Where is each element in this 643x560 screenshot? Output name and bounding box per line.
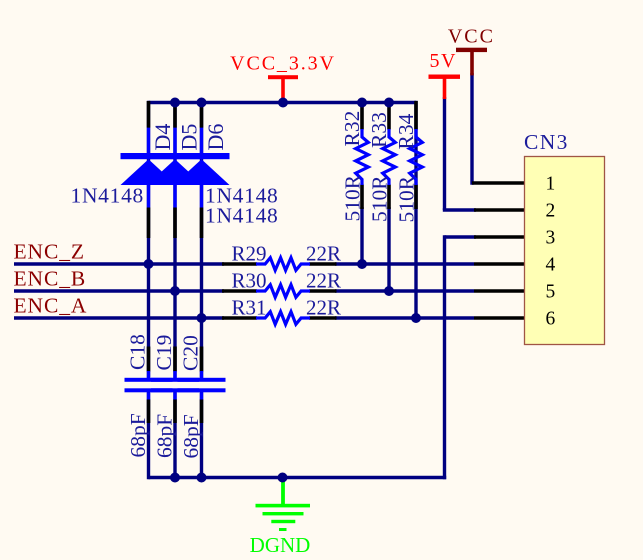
svg-text:CN3: CN3	[524, 130, 569, 154]
svg-text:510R: 510R	[395, 175, 419, 222]
connector CN3 pin stubs	[472, 183, 526, 318]
wire: R34 upper and lower vertical	[414, 101, 417, 318]
svg-text:68pF: 68pF	[126, 413, 150, 457]
node: ENC_Z / D4 column	[144, 259, 154, 269]
node: top bus / R33	[384, 98, 394, 108]
svg-text:R32: R32	[340, 111, 364, 147]
power symbol 5V	[429, 75, 461, 100]
svg-text:C18: C18	[125, 334, 149, 370]
svg-text:5: 5	[546, 281, 556, 302]
diode D5 symbol	[147, 128, 203, 208]
node: top bus / R32	[357, 98, 367, 108]
wire: R33 lower vertical	[387, 207, 390, 291]
svg-text:ENC_A: ENC_A	[14, 294, 88, 318]
svg-text:6: 6	[546, 308, 556, 329]
resistor R29 symbol	[222, 258, 337, 271]
diode D6 symbol	[174, 128, 230, 208]
wire: VCC_3.3V top bus	[149, 101, 417, 104]
svg-text:ENC_B: ENC_B	[14, 267, 87, 291]
resistor R33 symbol	[383, 101, 396, 209]
node: ENC_A / R34	[411, 313, 421, 323]
svg-text:R31: R31	[232, 295, 267, 319]
capacitor C20 symbol	[178, 347, 226, 424]
svg-text:4: 4	[546, 254, 556, 275]
capacitor C18 symbol	[125, 347, 173, 424]
node: top bus / D5	[170, 98, 180, 108]
svg-text:510R: 510R	[341, 174, 365, 221]
diode D4 pins (black)	[147, 101, 151, 238]
svg-text:1N4148: 1N4148	[205, 203, 278, 227]
wire: D5/C19 column (ENC_B net vertical)	[173, 103, 176, 381]
connector CN3 body	[525, 157, 605, 345]
wire: ENC_B row to pin 5	[14, 289, 224, 292]
diode D5 pins (black)	[173, 101, 177, 238]
svg-text:22R: 22R	[306, 268, 341, 292]
diode D4 symbol	[121, 128, 177, 208]
svg-text:VCC_3.3V: VCC_3.3V	[230, 52, 336, 74]
wire: bottom ground bus	[149, 476, 447, 479]
ground DGND	[256, 478, 311, 532]
wire: D6/C20 column (ENC_A net vertical)	[200, 103, 203, 381]
svg-text:D5: D5	[177, 124, 202, 151]
node: ENC_A / D6 column	[197, 313, 207, 323]
wire: ENC_A row to pin 6	[14, 316, 224, 319]
node: ENC_B / D5 column	[170, 286, 180, 296]
svg-text:VCC: VCC	[448, 25, 495, 47]
node: top bus / D6	[197, 98, 207, 108]
svg-text:22R: 22R	[306, 295, 341, 319]
power symbol VCC_3.3V	[268, 75, 298, 102]
svg-text:1: 1	[546, 173, 556, 194]
resistor R34 symbol	[410, 101, 423, 209]
node: top bus / VCC_3.3V	[278, 98, 288, 108]
resistor R30 symbol	[222, 285, 337, 298]
wire: pin 3 corner down to bottom bus	[445, 235, 477, 479]
svg-text:R29: R29	[232, 241, 267, 265]
wire: 5V vertical and corner to pin 2	[443, 97, 476, 210]
node: ENC_B / R33	[384, 286, 394, 296]
svg-text:D4: D4	[150, 124, 175, 151]
node: ENC_Z / R32	[357, 259, 367, 269]
capacitor C19 symbol	[151, 347, 199, 424]
svg-text:68pF: 68pF	[179, 414, 203, 458]
svg-text:DGND: DGND	[250, 533, 311, 557]
svg-text:R30: R30	[232, 268, 267, 292]
svg-text:510R: 510R	[368, 175, 392, 222]
wire: ENC_Z row to pin 4	[14, 262, 224, 265]
svg-text:R33: R33	[367, 112, 391, 148]
svg-text:D6: D6	[203, 124, 228, 151]
wire: R32 lower vertical	[360, 207, 363, 264]
svg-text:C19: C19	[152, 335, 176, 371]
svg-text:1N4148: 1N4148	[71, 184, 144, 208]
svg-text:3: 3	[546, 227, 556, 248]
node: bottom bus / C20	[197, 473, 207, 483]
node: bottom bus / DGND	[278, 473, 288, 483]
svg-text:ENC_Z: ENC_Z	[14, 240, 85, 264]
node: bottom bus / C19	[170, 473, 180, 483]
wire: D4/C18 column (ENC_Z net vertical)	[147, 101, 150, 380]
diode D6 pins (black)	[200, 101, 204, 238]
svg-text:68pF: 68pF	[153, 414, 177, 458]
svg-text:5V: 5V	[429, 50, 456, 72]
svg-text:2: 2	[546, 200, 556, 221]
resistor R32 symbol	[356, 101, 369, 209]
resistor R31 symbol	[222, 312, 337, 325]
wire: VCC vertical to pin 1	[470, 73, 473, 185]
power symbol VCC	[456, 48, 487, 76]
svg-text:C20: C20	[178, 335, 202, 371]
svg-text:R34: R34	[394, 113, 418, 149]
svg-text:22R: 22R	[306, 241, 341, 265]
